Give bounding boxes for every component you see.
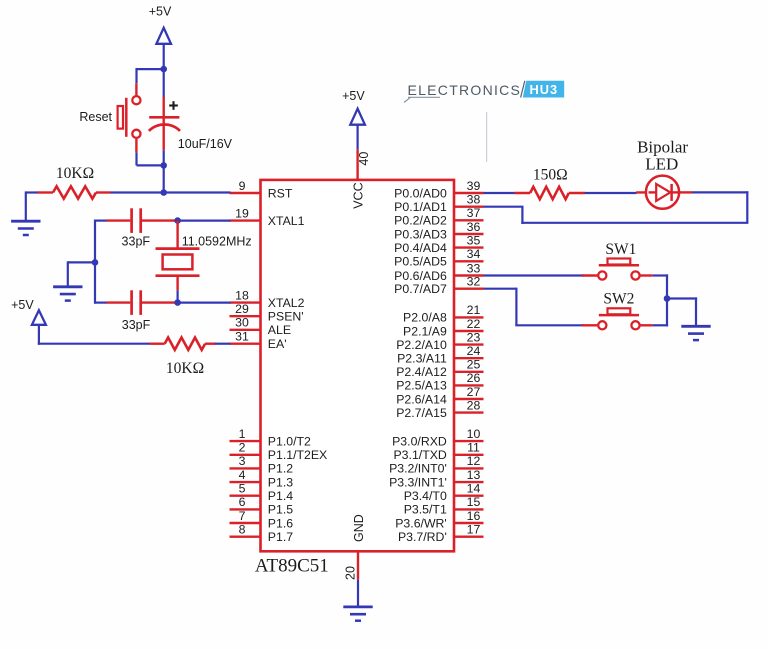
pin 19 stub + label XTAL1 [230, 206, 305, 228]
svg-text:40: 40 [357, 152, 371, 166]
svg-text:P3.4/T0: P3.4/T0 [404, 489, 447, 503]
svg-text:SW2: SW2 [603, 290, 634, 307]
svg-text:21: 21 [467, 303, 481, 317]
wire R1 to ground [26, 191, 38, 221]
svg-text:28: 28 [467, 398, 481, 412]
svg-text:P0.4/AD4: P0.4/AD4 [394, 241, 447, 255]
svg-text:P1.2: P1.2 [268, 462, 293, 476]
svg-text:31: 31 [235, 330, 249, 344]
pin 24 stub + label P2.3/A11 [397, 344, 483, 366]
wire up to P0.1 [521, 207, 523, 224]
wire XTAL2 to IC [178, 302, 231, 304]
svg-text:P3.7/RD': P3.7/RD' [398, 530, 447, 544]
svg-text:9: 9 [239, 179, 246, 193]
svg-text:33: 33 [467, 261, 481, 275]
svg-text:XTAL2: XTAL2 [268, 296, 305, 310]
svg-text:P3.1/TXD: P3.1/TXD [393, 448, 446, 462]
svg-text:3: 3 [239, 454, 246, 468]
power flag +5V (reset) [149, 5, 172, 44]
wire R2 to EA pin [215, 343, 231, 345]
svg-text:AT89C51: AT89C51 [255, 555, 329, 576]
svg-text:ELECTRONICS: ELECTRONICS [408, 82, 522, 98]
label SW2 [603, 290, 634, 307]
pin 17 stub + label P3.7/RD [398, 523, 484, 545]
svg-text:P3.3/INT1': P3.3/INT1' [389, 475, 447, 489]
svg-text:P2.6/A14: P2.6/A14 [396, 392, 447, 406]
resistor R1 10K [37, 186, 111, 198]
svg-text:4: 4 [239, 468, 246, 482]
wire R3 to LED [585, 192, 637, 194]
svg-text:17: 17 [467, 523, 481, 537]
node junction RST [160, 189, 167, 196]
svg-text:+5V: +5V [342, 89, 365, 103]
value label 33pF (top) [122, 235, 151, 249]
svg-text:37: 37 [467, 206, 481, 220]
svg-text:P1.1/T2EX: P1.1/T2EX [268, 448, 327, 462]
svg-text:GND: GND [352, 514, 366, 542]
wire XTAL1 left [95, 220, 107, 222]
svg-text:P0.3/AD3: P0.3/AD3 [394, 227, 447, 241]
pin 1 stub + label P1.0/T2 [230, 427, 312, 449]
svg-text:5: 5 [239, 482, 246, 496]
svg-text:P1.4: P1.4 [268, 489, 293, 503]
pin 29 stub + label PSEN [230, 302, 304, 324]
svg-text:10: 10 [467, 427, 481, 441]
svg-text:P3.2/INT0': P3.2/INT0' [389, 462, 447, 476]
wire LED to right rail [692, 191, 748, 193]
pin 18 stub + label XTAL2 [230, 288, 305, 310]
pin 30 stub + label ALE [230, 316, 292, 338]
wire red lead below reset switch [135, 138, 137, 152]
capacitor C3 33pF bottom [107, 290, 178, 315]
LED D1 bipolar [636, 176, 692, 209]
pin 11 stub + label P3.1/TXD [393, 441, 483, 463]
svg-text:P3.6/WR': P3.6/WR' [395, 516, 447, 530]
svg-text:11: 11 [467, 441, 480, 455]
svg-text:P0.5/AD5: P0.5/AD5 [394, 255, 447, 269]
svg-text:P2.2/A10: P2.2/A10 [396, 338, 447, 352]
wire +5V to EA corner [38, 325, 150, 345]
power flag +5V (EA) [11, 298, 46, 325]
wire reset branch bottom [137, 152, 164, 165]
wire SW2 to common [653, 324, 668, 326]
pin 6 stub + label P1.5 [230, 495, 294, 517]
logo HUB badge [521, 81, 565, 98]
value label 11.0592MHz [182, 235, 252, 249]
svg-text:18: 18 [235, 288, 249, 302]
IC name label AT89C51 [255, 555, 329, 576]
svg-text:P2.7/A15: P2.7/A15 [396, 406, 447, 420]
pin number 40 (rotated) [357, 152, 371, 166]
node junction XTAL1 [174, 217, 181, 224]
svg-text:34: 34 [467, 247, 481, 261]
pin 21 stub + label P2.0/A8 [403, 303, 483, 325]
logo text ELECTRONICS [404, 82, 521, 103]
svg-text:LED: LED [645, 154, 678, 173]
watermark faint line [486, 112, 488, 162]
svg-text:VCC: VCC [351, 182, 365, 208]
svg-text:P1.0/T2: P1.0/T2 [268, 434, 311, 448]
svg-text:36: 36 [467, 220, 481, 234]
wire +5V junction down to capacitor [163, 69, 165, 97]
node junction switch common [664, 295, 671, 302]
pin 25 stub + label P2.4/A12 [396, 358, 483, 380]
svg-text:+5V: +5V [149, 5, 172, 19]
svg-text:14: 14 [467, 482, 481, 496]
resistor R3 150 ohm [514, 187, 585, 199]
svg-text:P3.0/RXD: P3.0/RXD [392, 434, 447, 448]
svg-text:P2.0/A8: P2.0/A8 [403, 311, 447, 325]
label Bipolar LED [637, 137, 688, 173]
wire crystal bottom to XTAL2 [177, 290, 179, 302]
pin 3 stub + label P1.2 [230, 454, 294, 476]
pin 4 stub + label P1.3 [230, 468, 294, 490]
pin 2 stub + label P1.1/T2EX [230, 441, 328, 463]
pin 31 stub + label EA [230, 330, 287, 352]
wire VCC blue segment [357, 125, 359, 150]
pin 12 stub + label P3.2/INT0 [389, 454, 483, 476]
value label 33pF (bottom) [122, 318, 151, 332]
svg-text:19: 19 [235, 206, 249, 220]
wire capacitor bottom to RST junction [163, 150, 165, 193]
svg-text:+5V: +5V [11, 298, 34, 312]
pin 10 stub + label P3.0/RXD [392, 427, 483, 449]
svg-text:16: 16 [467, 509, 481, 523]
svg-text:P1.5: P1.5 [268, 503, 293, 517]
node junction caps-ground tap [92, 259, 99, 266]
svg-text:P1.6: P1.6 [268, 516, 293, 530]
svg-text:P2.5/A13: P2.5/A13 [396, 379, 447, 393]
wire VCC red segment to pin 40 [356, 150, 358, 181]
svg-text:11.0592MHz: 11.0592MHz [182, 235, 252, 249]
wire RST to IC [110, 191, 231, 193]
svg-text:2: 2 [239, 441, 246, 455]
pin 33 stub + label P0.6/AD6 [394, 261, 483, 283]
wire switch common vertical [666, 274, 668, 326]
resistor R2 10K [150, 338, 216, 350]
wire P0.0 to R3 [484, 192, 515, 194]
IC U1 AT89C51 body [261, 180, 455, 551]
svg-text:P0.1/AD1: P0.1/AD1 [394, 200, 447, 214]
svg-text:32: 32 [467, 275, 481, 289]
wire corner down to SW2 row [515, 288, 584, 326]
wire XTAL1 to IC [178, 220, 231, 222]
svg-text:1: 1 [239, 427, 246, 441]
wire red lead to reset switch [135, 83, 137, 96]
svg-text:6: 6 [239, 495, 246, 509]
pin 38 stub + label P0.1/AD1 [394, 193, 483, 215]
pin 22 stub + label P2.1/A9 [403, 317, 483, 339]
svg-text:P2.3/A11: P2.3/A11 [397, 352, 447, 366]
pin 13 stub + label P3.3/INT1 [389, 468, 483, 490]
pin 26 stub + label P2.5/A13 [396, 371, 483, 393]
svg-text:RST: RST [268, 186, 293, 200]
svg-text:ALE: ALE [268, 323, 291, 337]
svg-text:P0.2/AD2: P0.2/AD2 [394, 214, 447, 228]
svg-text:39: 39 [467, 179, 481, 193]
svg-text:7: 7 [239, 509, 246, 523]
svg-text:10KΩ: 10KΩ [56, 165, 94, 182]
svg-text:8: 8 [239, 523, 246, 537]
label Reset [79, 110, 112, 124]
svg-text:EA': EA' [268, 337, 287, 351]
svg-text:27: 27 [467, 385, 481, 399]
svg-text:10uF/16V: 10uF/16V [178, 137, 233, 151]
pushbutton SW2 [582, 308, 653, 329]
value label 10uF/16V [178, 137, 233, 151]
pin 28 stub + label P2.7/A15 [396, 398, 483, 420]
wire reset branch top [137, 68, 164, 83]
wire GND blue segment [357, 580, 359, 607]
node junction reset top [160, 66, 167, 73]
svg-text:15: 15 [467, 495, 481, 509]
node junction XTAL2 [174, 299, 181, 306]
ground (crystal) [53, 287, 82, 301]
pin 8 stub + label P1.7 [230, 523, 294, 545]
svg-text:XTAL1: XTAL1 [268, 214, 305, 228]
capacitor C2 33pF top [107, 208, 178, 233]
pushbutton SW1 [582, 259, 653, 280]
wire return rail [521, 222, 748, 224]
value label 150 ohm [533, 167, 568, 184]
pin 5 stub + label P1.4 [230, 482, 294, 504]
svg-text:20: 20 [344, 566, 358, 580]
wire GND red segment pin 20 [357, 551, 359, 579]
capacitor C1 10uF/16V [149, 97, 180, 151]
pushbutton Reset [118, 96, 141, 138]
svg-text:30: 30 [235, 316, 249, 330]
wire +5V down to junction [163, 44, 165, 70]
svg-text:Reset: Reset [79, 110, 112, 124]
wire XTAL2 left [95, 302, 107, 304]
svg-text:P0.6/AD6: P0.6/AD6 [394, 269, 447, 283]
pin 15 stub + label P3.5/T1 [404, 495, 484, 517]
svg-text:P0.7/AD7: P0.7/AD7 [394, 282, 447, 296]
wire right rail down [746, 191, 748, 223]
pin 27 stub + label P2.6/A14 [396, 385, 483, 407]
value label 10K ohm [56, 165, 94, 182]
ground (switches) [681, 326, 710, 340]
pin 32 stub + label P0.7/AD7 [394, 275, 483, 297]
svg-text:29: 29 [235, 302, 249, 316]
pin 9 stub + label RST [230, 179, 293, 201]
svg-text:P2.4/A12: P2.4/A12 [396, 365, 447, 379]
svg-text:150Ω: 150Ω [533, 167, 568, 184]
pin label VCC (rotated) [351, 182, 365, 208]
wire to crystal ground [68, 261, 95, 287]
svg-text:10KΩ: 10KΩ [166, 360, 204, 377]
svg-text:33pF: 33pF [122, 235, 151, 249]
ground (reset pulldown) [11, 221, 40, 235]
svg-text:26: 26 [467, 371, 481, 385]
svg-text:P2.1/A9: P2.1/A9 [403, 324, 447, 338]
svg-text:P0.0/AD0: P0.0/AD0 [394, 186, 447, 200]
pin 35 stub + label P0.4/AD4 [394, 233, 483, 255]
value label 10K ohm (EA) [166, 360, 204, 377]
svg-text:35: 35 [467, 233, 481, 247]
pin 39 stub + label P0.0/AD0 [394, 179, 483, 201]
wire P0.1 to corner [484, 206, 524, 208]
pin 36 stub + label P0.3/AD3 [394, 220, 483, 242]
label + polarity [169, 101, 178, 110]
svg-text:13: 13 [467, 468, 481, 482]
svg-text:SW1: SW1 [605, 241, 636, 258]
power flag +5V (VCC) [342, 89, 365, 125]
svg-text:25: 25 [467, 358, 481, 372]
svg-text:22: 22 [467, 317, 481, 331]
pin 16 stub + label P3.6/WR [395, 509, 483, 531]
svg-text:23: 23 [467, 330, 481, 344]
svg-text:33pF: 33pF [122, 318, 151, 332]
pin 7 stub + label P1.6 [230, 509, 294, 531]
svg-text:38: 38 [467, 193, 481, 207]
wire P0.6 to SW1 [484, 274, 585, 276]
pin number 20 (rotated) [344, 566, 358, 580]
pin 14 stub + label P3.4/T0 [404, 482, 484, 504]
svg-text:PSEN': PSEN' [268, 310, 304, 324]
pin 37 stub + label P0.2/AD2 [394, 206, 483, 228]
ground (below IC) [343, 607, 372, 621]
svg-text:24: 24 [467, 344, 481, 358]
wire caps common vertical [94, 220, 96, 304]
wire SW1 to common [653, 274, 668, 276]
wire P0.7 to corner [484, 288, 517, 290]
svg-text:P3.5/T1: P3.5/T1 [404, 503, 447, 517]
svg-text:P1.7: P1.7 [268, 530, 293, 544]
pin label GND (rotated) [352, 514, 366, 542]
svg-text:12: 12 [467, 454, 481, 468]
pin 23 stub + label P2.2/A10 [396, 330, 483, 352]
label SW1 [605, 241, 636, 258]
svg-text:P1.3: P1.3 [268, 475, 293, 489]
crystal Y1 11.0592MHz [156, 221, 200, 291]
node junction cap/switch bottom [160, 162, 167, 169]
wire common to ground corner [667, 297, 697, 326]
pin 34 stub + label P0.5/AD5 [394, 247, 483, 269]
svg-text:HU3: HU3 [529, 82, 558, 97]
